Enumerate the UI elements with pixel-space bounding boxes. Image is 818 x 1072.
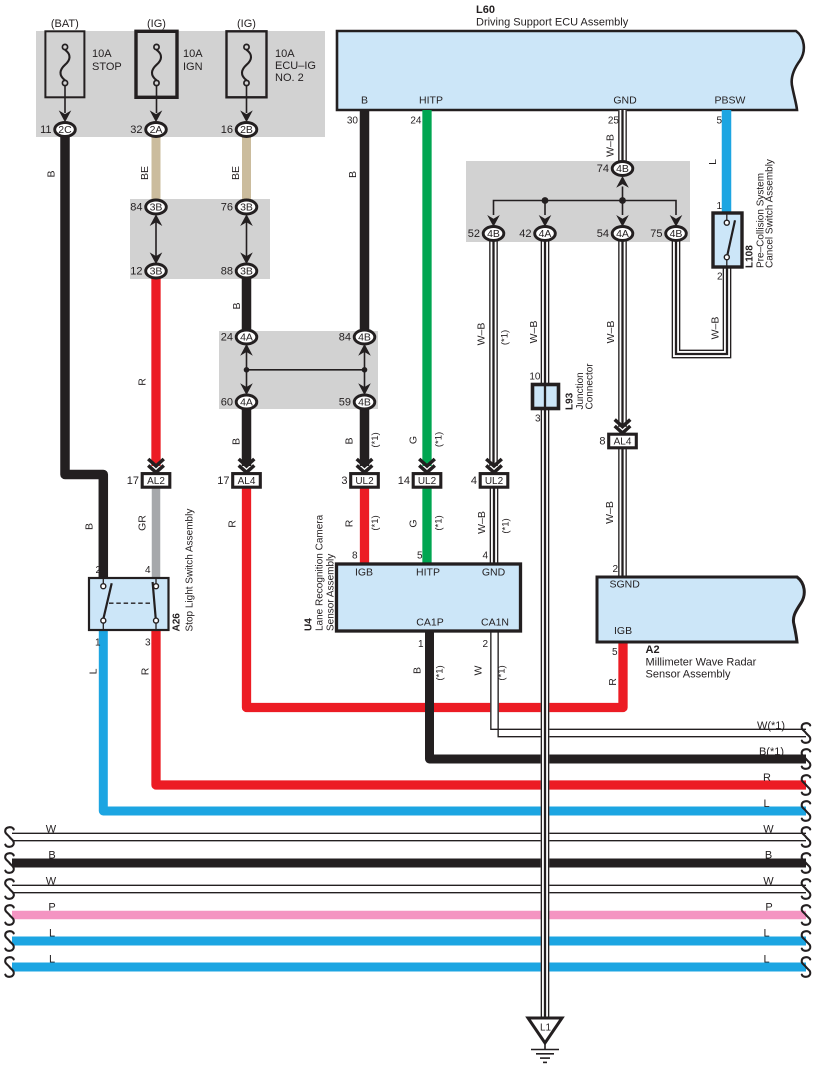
svg-text:12: 12 [130,266,142,278]
svg-text:SGND: SGND [610,579,641,591]
svg-text:R: R [607,678,619,686]
svg-text:4B: 4B [487,228,500,240]
svg-text:P: P [48,902,55,914]
svg-text:76: 76 [221,202,233,214]
svg-text:10A: 10A [183,48,203,60]
svg-text:14: 14 [398,475,410,487]
svg-text:74: 74 [597,163,609,175]
svg-text:L60: L60 [476,4,495,16]
svg-text:4B: 4B [670,228,683,240]
svg-text:4A: 4A [240,397,253,409]
svg-text:W–B: W–B [605,134,617,157]
svg-text:4A: 4A [616,228,629,240]
svg-text:A2: A2 [646,644,660,656]
svg-text:UL2: UL2 [485,476,504,487]
svg-text:3: 3 [145,638,151,649]
svg-text:W: W [763,824,774,836]
svg-text:R: R [344,519,356,527]
svg-text:W(*1): W(*1) [757,720,785,732]
svg-text:3B: 3B [240,266,253,278]
svg-text:IGN: IGN [183,61,203,73]
svg-text:42: 42 [519,228,531,240]
svg-text:8: 8 [599,435,605,447]
svg-text:4: 4 [145,565,151,576]
svg-text:75: 75 [650,228,662,240]
svg-text:10A: 10A [275,48,295,60]
svg-text:B(*1): B(*1) [759,746,784,758]
svg-text:ECU–IG: ECU–IG [275,60,316,72]
svg-text:R: R [763,772,771,784]
svg-text:24: 24 [221,332,233,344]
svg-text:W–B: W–B [605,321,617,344]
svg-text:BE: BE [230,166,242,180]
svg-text:(IG): (IG) [147,18,166,30]
svg-text:W: W [473,665,485,675]
svg-text:L1: L1 [540,1023,552,1034]
svg-text:Stop Light Switch Assembly: Stop Light Switch Assembly [185,509,196,632]
svg-text:A26: A26 [172,613,183,632]
svg-text:AL4: AL4 [238,476,256,487]
svg-text:54: 54 [597,228,609,240]
svg-text:Connector: Connector [585,363,596,410]
svg-text:G: G [408,436,420,444]
svg-text:W: W [46,876,57,888]
svg-text:Sensor Assembly: Sensor Assembly [646,669,731,681]
svg-text:R: R [137,378,149,386]
svg-text:B: B [412,667,424,674]
svg-text:24: 24 [410,116,422,127]
svg-text:NO. 2: NO. 2 [275,72,304,84]
svg-text:B: B [48,850,55,862]
svg-text:4: 4 [471,475,477,487]
svg-text:17: 17 [217,475,229,487]
svg-text:60: 60 [221,397,233,409]
svg-text:3: 3 [341,475,347,487]
svg-text:R: R [140,667,152,675]
svg-text:W–B: W–B [476,511,488,534]
svg-text:L: L [707,159,719,165]
svg-text:10: 10 [529,372,541,383]
svg-text:PBSW: PBSW [715,95,746,107]
svg-text:5: 5 [612,647,618,658]
svg-text:R: R [227,520,239,528]
svg-text:88: 88 [221,266,233,278]
svg-text:(*1): (*1) [370,432,381,447]
svg-text:L: L [49,954,55,966]
svg-text:U4: U4 [304,618,315,631]
svg-text:HITP: HITP [419,95,443,107]
svg-text:(*1): (*1) [500,330,511,345]
svg-text:B: B [344,437,356,444]
svg-text:L: L [88,668,100,674]
svg-text:IGB: IGB [355,567,373,579]
svg-text:2: 2 [717,272,723,283]
svg-text:W: W [46,824,57,836]
svg-text:W: W [763,876,774,888]
svg-text:(IG): (IG) [237,18,256,30]
svg-text:16: 16 [221,124,233,136]
svg-text:5: 5 [417,551,423,562]
svg-text:CA1P: CA1P [416,617,443,629]
svg-text:L108: L108 [745,245,756,268]
svg-text:25: 25 [608,116,620,127]
svg-text:52: 52 [468,228,480,240]
svg-text:B: B [347,171,359,178]
svg-text:IGB: IGB [614,625,632,637]
svg-text:B: B [231,302,243,309]
svg-text:3B: 3B [240,202,253,214]
svg-text:Lane Recognition Camera: Lane Recognition Camera [315,514,326,631]
svg-text:GND: GND [613,95,637,107]
svg-text:Cancel Switch Assembly: Cancel Switch Assembly [765,159,776,268]
svg-text:CA1N: CA1N [481,617,509,629]
svg-text:W–B: W–B [476,323,488,346]
svg-text:P: P [765,902,772,914]
svg-text:4A: 4A [240,332,253,344]
svg-text:GR: GR [137,515,149,531]
svg-text:1: 1 [418,639,424,650]
svg-text:2C: 2C [58,124,72,136]
svg-text:L: L [49,928,55,940]
svg-text:BE: BE [139,166,151,180]
svg-text:Driving Support ECU Assembly: Driving Support ECU Assembly [476,17,629,29]
svg-text:B: B [231,438,243,445]
svg-text:2: 2 [482,639,488,650]
svg-text:17: 17 [127,475,139,487]
svg-text:3: 3 [535,414,541,425]
svg-text:W–B: W–B [710,317,722,340]
svg-text:(*1): (*1) [501,518,512,533]
svg-text:(BAT): (BAT) [51,18,79,30]
svg-text:4B: 4B [358,332,371,344]
svg-text:2: 2 [95,565,101,576]
svg-text:5: 5 [716,116,722,127]
svg-text:L: L [763,928,769,940]
svg-text:30: 30 [347,116,359,127]
svg-text:L93: L93 [565,392,576,410]
svg-text:32: 32 [130,124,142,136]
svg-text:L: L [763,954,769,966]
svg-text:8: 8 [352,551,358,562]
svg-text:2B: 2B [240,124,253,136]
svg-text:AL4: AL4 [614,437,632,448]
svg-text:B: B [361,95,368,107]
svg-text:L: L [763,798,769,810]
svg-text:UL2: UL2 [355,476,374,487]
svg-text:2: 2 [612,564,618,575]
svg-text:W–B: W–B [528,321,540,344]
svg-text:(*1): (*1) [434,432,445,447]
svg-text:1: 1 [95,638,101,649]
svg-text:Millimeter Wave Radar: Millimeter Wave Radar [646,657,757,669]
svg-text:W–B: W–B [604,501,616,524]
svg-text:(*1): (*1) [497,665,508,680]
svg-text:2A: 2A [150,124,163,136]
svg-text:(*1): (*1) [435,665,446,680]
svg-text:11: 11 [40,124,51,136]
svg-text:10A: 10A [92,48,112,60]
svg-text:4A: 4A [539,228,552,240]
svg-text:GND: GND [482,567,506,579]
svg-text:59: 59 [339,397,351,409]
svg-text:B: B [765,850,772,862]
svg-text:84: 84 [339,332,351,344]
svg-text:4: 4 [482,551,488,562]
svg-text:B: B [84,523,96,530]
svg-text:STOP: STOP [92,61,122,73]
svg-text:1: 1 [716,201,722,212]
svg-text:(*1): (*1) [434,515,445,530]
svg-text:Sensor Assembly: Sensor Assembly [326,554,337,631]
svg-text:3B: 3B [150,266,163,278]
svg-text:4B: 4B [616,163,629,175]
svg-text:UL2: UL2 [418,476,437,487]
svg-text:3B: 3B [150,202,163,214]
svg-text:AL2: AL2 [147,476,165,487]
svg-text:HITP: HITP [416,567,440,579]
svg-text:G: G [408,519,420,527]
svg-text:4B: 4B [358,397,371,409]
svg-text:84: 84 [130,202,142,214]
svg-text:B: B [46,170,58,177]
svg-text:(*1): (*1) [370,515,381,530]
